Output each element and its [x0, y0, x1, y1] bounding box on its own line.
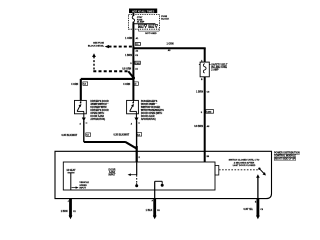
bottom wire middle	[146, 199, 161, 220]
wire fuse to bus	[132, 22, 134, 24]
connector C202	[201, 110, 214, 114]
joining wire to module	[84, 142, 137, 162]
junction	[132, 76, 135, 79]
svg-text:(RIGHT SIDE OF I/P): (RIGHT SIDE OF I/P)	[274, 159, 296, 161]
svg-text:C2: C2	[83, 84, 85, 86]
pin B13	[149, 24, 158, 28]
svg-text:B13: B13	[149, 26, 152, 28]
svg-text:INPUT: INPUT	[109, 175, 116, 177]
module inner box	[63, 162, 215, 190]
driver switch text	[90, 101, 109, 121]
svg-text:LAST DOOR CLOSED: LAST DOOR CLOSED	[233, 164, 256, 167]
svg-text:2 AMP: 2 AMP	[211, 69, 219, 72]
vehicle speed input label	[72, 182, 90, 189]
see fuse block detail arrow	[88, 43, 134, 49]
fuse block dashed box	[128, 15, 159, 30]
svg-text:0.8 BRN: 0.8 BRN	[194, 126, 203, 128]
dashed branch with up arrow	[92, 53, 133, 77]
wire down from passenger switch	[136, 120, 138, 147]
svg-text:B8: B8	[207, 156, 209, 158]
module outer box	[55, 151, 272, 198]
svg-text:DRIVER'S DOOR: DRIVER'S DOOR	[90, 110, 109, 112]
pin A13	[138, 24, 147, 28]
timer switch blade	[256, 168, 266, 199]
svg-text:1 BRN: 1 BRN	[125, 55, 132, 57]
door ajar input label	[109, 169, 116, 176]
svg-text:0.35 BLK/WHT: 0.35 BLK/WHT	[113, 134, 129, 136]
svg-text:25 AMP: 25 AMP	[137, 21, 145, 24]
svg-text:SEE FUSE: SEE FUSE	[93, 43, 104, 45]
svg-text:SWITCH CLOSED: SWITCH CLOSED	[141, 107, 161, 109]
svg-text:CONTROL MODULE: CONTROL MODULE	[274, 155, 296, 157]
svg-text:CLOSED WITH: CLOSED WITH	[90, 107, 106, 109]
connector C202 on main wire	[130, 61, 140, 65]
bottom wire left (ground)	[61, 199, 77, 220]
svg-text:1 ORN: 1 ORN	[167, 43, 174, 45]
bus bar	[133, 23, 155, 25]
in-line fuse (SAFETY BELT 2 AMP)	[199, 62, 228, 77]
timer switch dashed wire	[219, 169, 259, 171]
svg-text:DOOR OPEN (WITH: DOOR OPEN (WITH	[141, 113, 163, 115]
svg-text:J: J	[68, 201, 69, 203]
svg-text:POWER DISTRIBUTION: POWER DISTRIBUTION	[274, 152, 300, 154]
svg-text:DRIVER'S DOOR: DRIVER'S DOOR	[90, 101, 109, 103]
svg-text:C2: C2	[137, 134, 139, 136]
svg-text:DOOR AJAR: DOOR AJAR	[141, 115, 155, 118]
svg-text:APPARATUS): APPARATUS)	[90, 118, 105, 121]
main wire below fuse block	[132, 24, 134, 101]
wire 4 BRN down to module	[204, 77, 206, 162]
svg-text:BLOCK DETAIL: BLOCK DETAIL	[88, 44, 105, 47]
svg-text:DOOR JAMB: DOOR JAMB	[141, 103, 155, 106]
svg-text:1 BRN: 1 BRN	[61, 211, 68, 213]
svg-text:A13: A13	[139, 25, 142, 28]
svg-text:OPEN (WITH: OPEN (WITH	[90, 113, 104, 115]
title box HOT AT ALL TIMES	[129, 9, 157, 14]
arrow below passenger switch	[135, 114, 137, 118]
svg-text:C2: C2	[134, 84, 136, 86]
svg-text:2 SECONDS AFTER: 2 SECONDS AFTER	[234, 161, 255, 164]
wire down to in-line fuse	[204, 48, 206, 62]
svg-text:APPARATUS): APPARATUS)	[141, 118, 156, 121]
svg-text:NOT USED: NOT USED	[145, 33, 157, 35]
passenger door jamb switch box	[127, 100, 139, 113]
svg-text:0.35 YEL: 0.35 YEL	[243, 209, 253, 211]
wire down from driver switch	[83, 120, 85, 142]
door ajar arrow	[128, 173, 137, 176]
svg-text:AJAR: AJAR	[109, 171, 116, 174]
timer switch text	[229, 160, 260, 167]
branch wire left to driver switch	[81, 78, 134, 80]
bottom wire right	[243, 199, 263, 220]
svg-text:HOT AT ALL TIMES: HOT AT ALL TIMES	[132, 10, 155, 13]
svg-text:C1: C1	[136, 44, 138, 46]
svg-text:PASSENGER'S: PASSENGER'S	[141, 100, 158, 103]
svg-text:HI SEAT: HI SEAT	[67, 169, 76, 172]
svg-text:C202: C202	[135, 63, 139, 65]
wire from title box to fuse	[132, 13, 134, 16]
connector C1 on wire	[135, 43, 140, 46]
hi seat input	[67, 169, 76, 190]
svg-text:4 ORN: 4 ORN	[123, 83, 130, 86]
svg-text:0.8 ORN: 0.8 ORN	[122, 68, 131, 70]
wire inside module	[136, 162, 138, 175]
svg-text:BLOCK: BLOCK	[161, 18, 169, 20]
hook wire to middle output	[155, 181, 164, 198]
not used bracket	[138, 30, 159, 36]
label fuse block	[161, 16, 169, 21]
svg-text:JAMB SWITCH: JAMB SWITCH	[90, 103, 107, 106]
arrow below driver switch	[83, 114, 85, 118]
branch wire right 1 ORN	[133, 43, 205, 52]
svg-text:1 BLK: 1 BLK	[146, 210, 153, 212]
svg-text:1 ORN: 1 ORN	[125, 38, 132, 40]
module label: power distribution control module	[274, 152, 300, 160]
fuse CTSY 25 AMP	[132, 16, 145, 24]
svg-text:C2: C2	[86, 135, 88, 137]
connector tab	[215, 166, 219, 176]
svg-text:DOOR AJAR: DOOR AJAR	[90, 115, 104, 118]
svg-text:0.35 BLK/WHT: 0.35 BLK/WHT	[61, 135, 77, 137]
passenger switch text	[141, 100, 164, 121]
svg-text:INPUT: INPUT	[79, 187, 86, 189]
svg-text:WITH PASSENGER'S: WITH PASSENGER'S	[141, 109, 164, 112]
svg-text:1 BRN: 1 BRN	[196, 91, 203, 93]
driver door jamb switch box	[75, 100, 87, 113]
svg-text:4 ORN: 4 ORN	[71, 83, 78, 86]
